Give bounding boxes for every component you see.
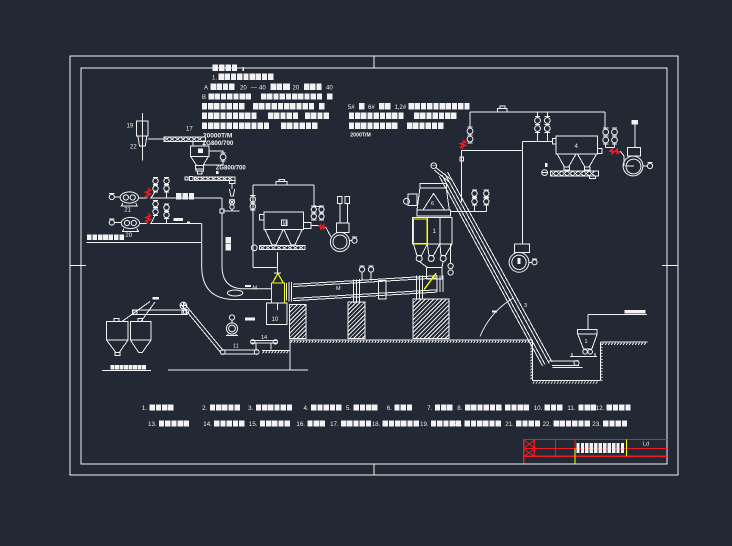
kiln riding ring 2 (416, 276, 418, 299)
feeder box inner square (198, 149, 203, 154)
kiln discharge end flanges (436, 276, 438, 292)
svg-text:16.: 16. (296, 421, 305, 428)
svg-text:6#: 6# (368, 105, 375, 111)
riser valves (467, 128, 473, 134)
horizontal screw distribution conveyor (133, 310, 187, 314)
frame tick right middle (662, 265, 678, 267)
vessel 22 body (137, 121, 149, 136)
baghouse 4 screw conveyor (551, 171, 599, 176)
incline head pulley w/ cross (180, 302, 187, 309)
svg-text:18.: 18. (372, 421, 381, 428)
svg-text:3.: 3. (248, 405, 253, 412)
svg-text:20: 20 (293, 85, 300, 91)
svg-text:3: 3 (524, 303, 527, 309)
bucket elevator rail 3 (442, 175, 545, 365)
conveyor 14 supports (255, 343, 257, 350)
conveying air pipe 1 (150, 197, 222, 199)
drop line to junction (231, 209, 233, 211)
collect chute (419, 262, 443, 268)
left pipe valve 1 (250, 197, 255, 202)
silo feed line A (122, 302, 150, 322)
airlock 1 (416, 256, 422, 262)
baghouse 13 top pipe (253, 184, 314, 186)
main ground line (290, 339, 532, 341)
kiln drive gear + M (379, 281, 387, 300)
discharge hood vessel (427, 267, 442, 279)
discharge valves right (448, 263, 453, 268)
left pipe valve 2 (250, 204, 255, 209)
funnel flange (196, 169, 203, 171)
yellow discharge chute diagonal (424, 273, 436, 289)
pit hopper airlocks (583, 350, 588, 355)
right valve stack S2 (484, 191, 489, 196)
kiln shell inner lines (293, 278, 437, 287)
baghouse 4 hopper right (578, 154, 597, 167)
cyclone bank outer (413, 217, 453, 243)
fan 11 outlet (226, 335, 238, 337)
title block yellow vertical b (626, 439, 628, 456)
chute bar17 to feeder box (192, 141, 194, 146)
title text 磨细加工工艺流程图 (576, 443, 579, 453)
svg-text:ZG800/700: ZG800/700 (216, 166, 247, 172)
duct damper ellipse (227, 290, 242, 296)
duct label vertical 磨烟 (226, 237, 231, 243)
note block 2 line 3 (349, 123, 354, 129)
silo B body (131, 322, 152, 341)
feeder bypass pipe right (209, 151, 223, 154)
svg-text:23.: 23. (592, 421, 601, 428)
rotary kiln shell (293, 276, 437, 285)
pipe 1 valve stack A2 (164, 186, 169, 191)
fan 6 scroll circle (330, 232, 349, 251)
duct right wall (222, 213, 271, 289)
svg-text:21.: 21. (505, 421, 514, 428)
label 16 dash (152, 297, 159, 299)
vent cap on main top pipe (497, 109, 507, 112)
feeder vessel drop line (276, 252, 278, 273)
feed vessel yellow cone (273, 273, 284, 283)
svg-text:2000T/M: 2000T/M (350, 133, 370, 139)
label plate near fan 11 (245, 317, 255, 320)
flue gas line (87, 241, 202, 243)
fan 5 scroll (623, 156, 643, 176)
svg-text:5#: 5# (348, 105, 355, 111)
right valve stack 2 (319, 207, 324, 212)
svg-text:10: 10 (272, 317, 279, 323)
fan 6 outlet silencer left (337, 197, 342, 204)
hopper feet (564, 167, 570, 170)
red flexible joint on riser top (461, 140, 466, 149)
pit hopper base plate (570, 356, 597, 358)
vessel 22 center pipe (141, 113, 143, 161)
svg-text:4.: 4. (304, 405, 309, 412)
outer border frame (70, 56, 678, 475)
kiln pier 3 hatched (413, 299, 449, 338)
pipe 2 valve stack B2 (164, 205, 169, 210)
pit left wall hatch (530, 342, 532, 343)
baghouse 13 body (264, 212, 304, 230)
kiln riding ring 1 (353, 280, 355, 304)
vent cap on top pipe (276, 182, 287, 186)
silo B cone (131, 340, 152, 352)
fan 7 riser (522, 141, 524, 244)
fan 11 scroll (226, 323, 237, 334)
baghouse 4 hopper left (557, 154, 576, 167)
right valve stack R2 (612, 129, 618, 135)
title block yellow vertical a (574, 449, 576, 464)
feed vessel tee top (274, 272, 281, 274)
svg-text:17: 17 (186, 127, 193, 133)
svg-text:11.: 11. (567, 405, 575, 412)
funnel neck rings (196, 166, 204, 169)
silo A body (107, 322, 129, 341)
svg-text:15.: 15. (249, 421, 258, 428)
svg-text:14: 14 (261, 335, 267, 341)
svg-text:20000T/M: 20000T/M (203, 132, 232, 139)
silo B vent (138, 318, 143, 321)
inner border frame (81, 68, 667, 464)
conveyor discharge box right (229, 180, 235, 183)
svg-text:40: 40 (326, 85, 333, 91)
left valve stack L1 (535, 118, 541, 124)
feed vessel yellow body (271, 283, 284, 303)
small motor block above bar (216, 171, 218, 174)
svg-text:17.: 17. (330, 421, 339, 428)
blower 20 inlet valve (109, 220, 114, 225)
left lower foundation line (168, 369, 308, 371)
fine lime underline (102, 370, 151, 372)
fan 5 outlet stem (634, 125, 636, 148)
elevator head pulley (431, 163, 437, 169)
svg-text:2.: 2. (202, 405, 207, 412)
svg-text:19.: 19. (420, 421, 429, 428)
junction square (220, 209, 224, 213)
title block red mid line 1 (524, 448, 667, 450)
svg-text:1,2#: 1,2# (395, 105, 407, 111)
blower 20 discharge pipe (140, 223, 147, 225)
silo A vent (114, 318, 119, 321)
title block red mid line 2 (524, 455, 667, 457)
svg-text:6.: 6. (387, 405, 392, 412)
pit floor (532, 380, 600, 382)
note line 4 (202, 103, 207, 109)
blower 21 inlet valve (109, 194, 114, 199)
fan 6 outlet silencer right (345, 197, 350, 204)
screw conveyor motor box left (189, 177, 193, 181)
title block red hatched cell (525, 441, 534, 456)
kiln top vent valve 2 (368, 267, 373, 272)
title block red vertical 4 (574, 439, 576, 448)
baghouse 13 screw conveyor (260, 246, 305, 250)
red flexible joint fan 5 (609, 149, 620, 153)
svg-text:1: 1 (585, 339, 588, 345)
process note title (213, 65, 218, 71)
separator 6 top box (420, 184, 446, 188)
bypass valve (220, 154, 226, 160)
right valve stack S1 (472, 191, 477, 196)
bottom horizontal belt conveyor (222, 349, 259, 351)
pit left wall (531, 340, 533, 381)
bucket elevator rail 2 (445, 174, 550, 364)
title block red left vertical (523, 439, 525, 463)
small hatch under conveyor14 (262, 349, 290, 351)
pit right ledge (601, 341, 648, 343)
frame tick top center (373, 56, 375, 68)
cyclone cone 2 (427, 244, 440, 256)
elevator boot (549, 360, 579, 362)
kiln pier 1 hatched (289, 304, 306, 338)
head feed chute (436, 168, 451, 180)
rotary airlock valve (229, 199, 234, 204)
svg-text:—: — (251, 85, 257, 91)
boot back incline (553, 367, 583, 369)
silo feed line B (141, 302, 155, 322)
flexible joint red on pipe 1 (146, 188, 151, 198)
title block red vertical 2 (533, 439, 535, 456)
baghouse left pipe down (252, 185, 254, 267)
svg-text:M: M (253, 286, 258, 292)
fine lime text label (111, 365, 115, 370)
screw conveyor hatched bar (194, 177, 235, 180)
filled label plate on pipe 2 (174, 218, 183, 221)
pit hopper cone (578, 334, 598, 349)
title block red vertical 3 (554, 439, 556, 456)
separator right outlet stub (451, 211, 487, 213)
discharge box 10 (267, 303, 287, 324)
top pipe stems to left stacks (537, 112, 539, 118)
small tick near hopper (545, 163, 547, 167)
pit hopper feed line (587, 315, 589, 330)
roots blower 21 (120, 192, 138, 203)
junction square on riser (460, 157, 464, 161)
funnel spout (197, 171, 201, 174)
note line 5 (202, 113, 207, 119)
screw left drive circle (251, 245, 257, 251)
inclination arc (480, 298, 513, 336)
label conveying air 输送风 (176, 193, 181, 199)
svg-text:20.: 20. (454, 421, 463, 428)
right valve stack 1 (311, 207, 316, 212)
angle label dash (492, 311, 497, 313)
svg-text:22.: 22. (543, 421, 552, 428)
riser elbow to top pipe (469, 112, 471, 128)
svg-text:9.: 9. (497, 405, 502, 412)
cyclone cone 3 (440, 244, 452, 256)
fan 6 right valve (352, 238, 357, 243)
feeder funnel (190, 156, 208, 165)
frame tick bottom center (373, 464, 375, 475)
separator left circle (404, 198, 410, 204)
svg-text:1.: 1. (142, 405, 147, 412)
screw discharge box (590, 176, 596, 179)
flue gas label 去电厂锅炉烟气 (87, 235, 92, 240)
fan 5 inlet bend (621, 151, 625, 156)
bucket elevator rail 1 (448, 172, 553, 362)
roots blower 20 (121, 217, 139, 228)
svg-text:22: 22 (130, 145, 137, 151)
silo A cone (107, 340, 129, 352)
svg-text:40: 40 (259, 85, 266, 91)
separator top riser (461, 151, 463, 202)
separator 6 body trapezoid (417, 188, 449, 210)
blower 21 discharge pipe (139, 197, 147, 199)
baghouse outlet nozzle right (304, 223, 311, 229)
pit right wall hatch (601, 344, 603, 345)
baghouse 4 header line (523, 140, 553, 142)
filled bar label (624, 310, 645, 314)
silo A outlet (115, 352, 120, 355)
baghouse 4 top pipe drop (604, 112, 606, 129)
svg-text:6: 6 (431, 201, 434, 207)
svg-text:10.: 10. (534, 405, 543, 412)
cyclone cell yellow (413, 219, 427, 244)
svg-text:13.: 13. (148, 421, 157, 428)
right valve stack R1 (603, 129, 609, 135)
fan 7 right valve (532, 260, 537, 265)
fan 7 housing (515, 244, 530, 253)
baghouse 4 right nozzle (598, 149, 602, 154)
fan 5 housing (628, 147, 641, 156)
svg-text:Ld: Ld (643, 441, 649, 447)
belt conveyor 14 (251, 340, 277, 342)
separator inner cone (423, 194, 445, 211)
svg-text:1.: 1. (212, 75, 217, 81)
baghouse 4 body (556, 136, 598, 154)
feed line horizontal (588, 314, 647, 316)
fan 5 outlet silencer filled (632, 120, 639, 124)
cyclone cone 1 (413, 244, 427, 256)
red flexible joint to fan 6 (319, 225, 326, 229)
fan 6 inlet line (326, 227, 331, 237)
frame tick left middle (70, 265, 86, 267)
bucket elevator rail 4 (439, 176, 542, 366)
foundation step (289, 340, 291, 370)
title block red top line (524, 438, 667, 440)
fan 7 scroll (509, 252, 529, 272)
conveying air pipe 2 (150, 223, 202, 225)
fan 5 right valve (647, 163, 652, 168)
incline second pulley (183, 309, 188, 314)
kiln pier 2 hatched (348, 302, 365, 338)
vessel 22 funnel (138, 136, 147, 146)
M drive label on duct (245, 285, 251, 287)
svg-text:21: 21 (124, 208, 131, 214)
pit right wall (600, 342, 602, 381)
inclined belt conveyor lines (183, 302, 223, 350)
baghouse 13 hopper right (284, 230, 302, 245)
baghouse 13 left nozzle (260, 215, 264, 220)
pit floor hatch (533, 382, 534, 384)
svg-text:11: 11 (233, 344, 239, 350)
kiln inlet flanges (286, 283, 288, 301)
pipe 2 valve stack B1 (153, 201, 158, 206)
feeder box (190, 146, 209, 156)
svg-text:M: M (336, 286, 341, 292)
separator left box (408, 194, 417, 206)
svg-text:14.: 14. (203, 421, 212, 428)
pipe 1 valve stack A1 (153, 186, 158, 191)
baghouse right riser (313, 185, 315, 206)
svg-text:8.: 8. (457, 405, 462, 412)
main top pipe (470, 111, 605, 113)
cyclone divider 2 (439, 217, 441, 243)
discharge funnel (229, 189, 235, 196)
connector line vessel22 to conveyor 17 (148, 138, 164, 140)
airlock 3 (440, 256, 446, 262)
baghouse 13 hopper left (265, 230, 283, 245)
baghouse 13 motor box M (282, 220, 288, 226)
junction stub line (223, 210, 239, 212)
separator skirt band (417, 210, 451, 216)
note line 6 (202, 123, 207, 129)
right ledge hatch (602, 343, 603, 345)
svg-text:12.: 12. (596, 405, 605, 412)
svg-text:20: 20 (240, 85, 247, 91)
fan 6 housing (337, 223, 349, 233)
screw conveyor 17 hatched bar (164, 137, 206, 141)
svg-text:7.: 7. (427, 405, 432, 412)
cyclone divider 1 (426, 217, 428, 243)
svg-text:20: 20 (125, 233, 132, 239)
screw drive circle (542, 170, 548, 176)
svg-text:B: B (202, 95, 206, 101)
elbow to feeder vessel (253, 266, 278, 268)
left valve stack L2 (544, 118, 550, 124)
flexible joint red on pipe 2 (146, 214, 151, 224)
airlock 2 (428, 256, 434, 262)
pit hopper top rect (578, 330, 598, 334)
note block 2 line 2 (349, 113, 354, 119)
svg-text:19: 19 (127, 124, 134, 130)
svg-text:5.: 5. (346, 405, 351, 412)
kiln top vent valve 1 (359, 267, 364, 272)
baghouse 4 left nozzle (552, 139, 556, 145)
header from separator (462, 150, 523, 152)
duct left wall (202, 224, 272, 300)
svg-text:A: A (204, 85, 208, 91)
small tick on pipe 2 (187, 222, 190, 223)
svg-text:M: M (283, 221, 287, 227)
